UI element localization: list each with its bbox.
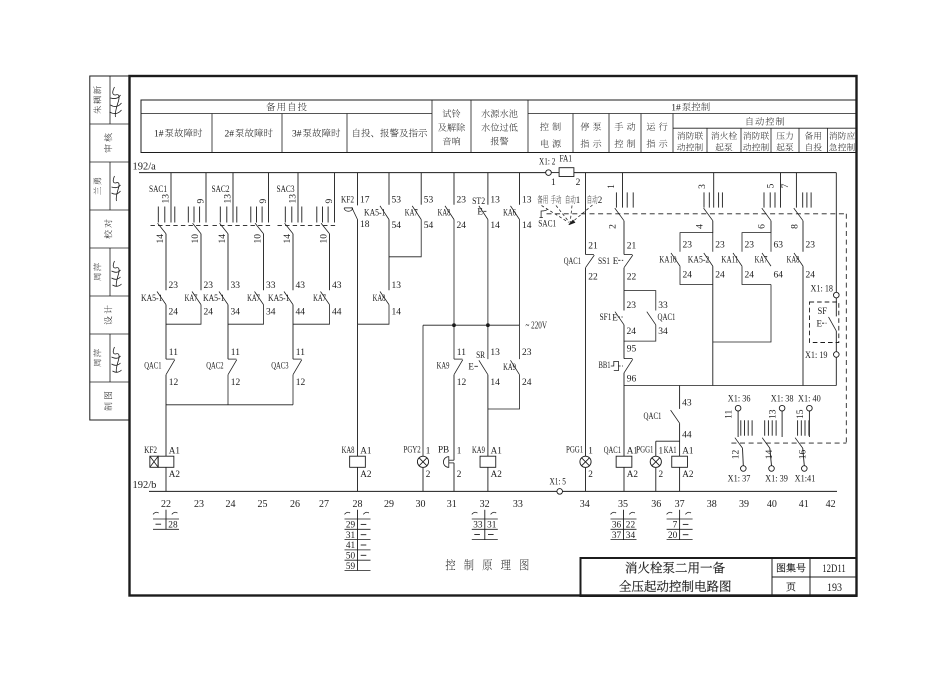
wire rejoin	[742, 266, 771, 284]
svg-text:28: 28	[353, 499, 363, 510]
svg-text:23: 23	[627, 301, 637, 311]
svg-text:34: 34	[626, 531, 636, 541]
svg-text:96: 96	[627, 375, 637, 385]
svg-text:34: 34	[658, 327, 668, 337]
svg-text:27: 27	[319, 499, 329, 510]
contact blade	[321, 292, 330, 305]
svg-text:X1: 39: X1: 39	[765, 475, 788, 485]
header table column line	[211, 114, 213, 153]
coil KA1	[672, 456, 688, 467]
lamp PGG1	[650, 456, 661, 467]
wire	[422, 325, 424, 456]
coil KF2	[158, 456, 174, 467]
svg-text:14: 14	[522, 221, 532, 231]
switch SAC1 contact blade	[794, 208, 803, 221]
wire merge	[624, 325, 656, 341]
svg-text:192/b: 192/b	[133, 480, 157, 491]
svg-text:2#: 2#	[225, 130, 235, 140]
wire	[742, 448, 745, 466]
svg-text:A2: A2	[682, 469, 694, 479]
svg-text:13: 13	[224, 194, 234, 204]
svg-text:20: 20	[668, 531, 678, 541]
wire reference table	[667, 518, 693, 520]
svg-text:KA8: KA8	[342, 445, 355, 455]
switch SAC3 contact position ticks	[316, 207, 318, 223]
svg-text:29: 29	[384, 499, 394, 510]
switch contact position ticks	[703, 192, 705, 207]
switch SAC1 contact blade	[615, 208, 624, 221]
switch SAC3 coupling dashed line	[278, 225, 338, 227]
wire reference stub	[484, 510, 486, 540]
header cell 备用自投	[805, 132, 821, 140]
svg-text:10: 10	[191, 234, 201, 244]
wire pair merge	[166, 305, 201, 325]
title strip name 朱耦新	[93, 86, 101, 114]
svg-text:KA5-1: KA5-1	[268, 294, 290, 304]
svg-text:12: 12	[296, 378, 306, 388]
wire	[679, 467, 681, 491]
contact blade	[293, 360, 302, 375]
svg-text:6: 6	[758, 224, 768, 229]
wire reference stub	[357, 510, 359, 571]
wire	[292, 305, 294, 360]
header table column line	[827, 128, 829, 152]
svg-text:24: 24	[627, 327, 637, 337]
wire rejoin	[680, 266, 713, 284]
title strip name cell divider	[109, 76, 111, 124]
svg-text:1: 1	[576, 195, 581, 205]
svg-text:SR: SR	[476, 351, 486, 361]
svg-text:33: 33	[473, 521, 483, 531]
contact blade	[166, 360, 175, 375]
header table column line	[640, 114, 642, 153]
svg-text:21: 21	[627, 241, 637, 251]
svg-text:14: 14	[490, 221, 500, 231]
svg-text:10: 10	[253, 234, 263, 244]
contact blade	[479, 360, 488, 374]
switch SAC1 contact position ticks	[187, 207, 189, 223]
svg-text:A1: A1	[682, 446, 694, 456]
svg-text:13: 13	[289, 194, 299, 204]
header table column line	[527, 100, 529, 153]
contact bar	[293, 358, 301, 360]
contact blade	[380, 206, 389, 220]
svg-text:1: 1	[426, 446, 431, 456]
svg-text:X1:41: X1:41	[795, 475, 816, 485]
wire bracket	[680, 233, 713, 252]
wire branch	[624, 291, 656, 311]
svg-text:2: 2	[588, 469, 593, 479]
wire right drop to X1:18	[835, 173, 837, 293]
svg-text:SAC1: SAC1	[149, 185, 167, 195]
svg-text:32: 32	[480, 499, 490, 510]
svg-text:2: 2	[457, 469, 462, 479]
terminal X1:41	[802, 466, 808, 472]
wire	[488, 375, 520, 409]
wire	[422, 468, 424, 492]
svg-text:23: 23	[715, 241, 725, 251]
svg-text:22: 22	[161, 499, 171, 510]
svg-text:7: 7	[781, 183, 791, 188]
svg-text:54: 54	[424, 221, 434, 231]
svg-text:SAC3: SAC3	[277, 185, 295, 195]
svg-text:A2: A2	[169, 469, 181, 479]
wire	[519, 220, 521, 326]
title strip role 制图	[104, 392, 112, 411]
title strip row line	[90, 295, 130, 297]
wire	[200, 234, 202, 290]
wire 54 merge	[389, 220, 421, 257]
svg-text:1#: 1#	[154, 130, 164, 140]
svg-text:28: 28	[168, 521, 178, 531]
switch SAC1 handle	[540, 209, 548, 217]
title strip row line	[90, 381, 130, 383]
svg-text:34: 34	[231, 308, 241, 318]
svg-text:13: 13	[490, 195, 500, 205]
svg-text:14: 14	[490, 378, 500, 388]
wire	[585, 468, 587, 492]
wire	[737, 411, 739, 437]
title strip name 周萍	[93, 349, 101, 367]
header table outline	[141, 100, 857, 153]
svg-text:22: 22	[627, 273, 637, 283]
contact bar	[624, 254, 632, 256]
contact blade	[671, 410, 680, 423]
wire	[585, 173, 587, 255]
svg-text:42: 42	[826, 499, 836, 510]
svg-text:QAC1: QAC1	[644, 412, 662, 422]
wire QAC link horizontal	[166, 404, 293, 406]
svg-text:14: 14	[218, 234, 228, 244]
wire	[623, 221, 625, 255]
svg-text:11: 11	[231, 348, 240, 358]
svg-text:KA11: KA11	[721, 256, 738, 266]
contact blade	[794, 253, 803, 266]
title text 消火栓泵二用一备	[626, 562, 725, 574]
contact bar	[586, 254, 594, 256]
svg-text:1: 1	[607, 184, 617, 189]
svg-text:QAC1: QAC1	[658, 313, 676, 323]
wire	[165, 375, 167, 457]
svg-text:A2: A2	[491, 469, 503, 479]
svg-text:43: 43	[332, 281, 342, 291]
svg-text:26: 26	[290, 499, 300, 510]
svg-text:54: 54	[392, 221, 402, 231]
wire	[770, 221, 772, 233]
wire	[329, 234, 331, 290]
svg-text:7: 7	[673, 521, 678, 531]
contact blade	[228, 360, 237, 375]
svg-text:63: 63	[774, 241, 784, 251]
svg-text:1: 1	[551, 178, 556, 188]
contact blade	[380, 292, 389, 305]
svg-text:13: 13	[769, 409, 779, 419]
switch SAC2 contact blade	[220, 223, 228, 234]
wire	[713, 285, 771, 343]
svg-text:E: E	[817, 319, 823, 329]
header table column line	[770, 128, 772, 152]
wire	[623, 373, 625, 456]
wire	[802, 221, 804, 252]
switch SAC2 coupling dashed line	[213, 225, 272, 227]
svg-text:X1: 37: X1: 37	[728, 475, 751, 485]
svg-text:FA1: FA1	[560, 155, 573, 165]
switch SAC1 contact blade	[795, 438, 803, 448]
header table row line 1	[141, 113, 432, 115]
title block outline	[581, 558, 857, 596]
svg-text:40: 40	[767, 499, 777, 510]
svg-text:ST2: ST2	[472, 197, 485, 207]
wire	[835, 357, 837, 385]
svg-text:30: 30	[416, 499, 426, 510]
svg-text:KA5-1: KA5-1	[203, 294, 225, 304]
svg-text:18: 18	[360, 220, 370, 230]
wire reference stub	[623, 510, 625, 540]
header table column line	[572, 114, 574, 153]
svg-text:14: 14	[156, 234, 166, 244]
svg-text:A1: A1	[360, 446, 372, 456]
title strip name cell divider	[109, 162, 111, 210]
svg-text:KA7: KA7	[405, 208, 418, 218]
svg-text:64: 64	[774, 271, 784, 281]
wire	[165, 305, 167, 360]
svg-text:PGG1: PGG1	[636, 445, 653, 455]
wire	[358, 305, 390, 325]
svg-text:QAC2: QAC2	[206, 362, 223, 372]
lamp PGY2	[417, 456, 428, 467]
wire	[357, 324, 359, 456]
wire	[263, 234, 265, 290]
svg-text:A2: A2	[627, 469, 639, 479]
contact bar	[166, 358, 174, 360]
svg-text:2: 2	[598, 195, 603, 205]
svg-text:23: 23	[806, 241, 816, 251]
header cell 消防联动控制	[677, 132, 703, 140]
svg-text:44: 44	[296, 308, 306, 318]
switch SAC1 coupling dashed line	[151, 225, 209, 227]
switch SAC2 contact position ticks	[250, 207, 252, 223]
svg-text:KA8: KA8	[373, 294, 386, 304]
signature scribble	[112, 261, 122, 286]
svg-text:24: 24	[522, 378, 532, 388]
svg-text:X1: 2: X1: 2	[539, 158, 556, 168]
svg-text:9: 9	[197, 199, 207, 204]
wire reference table	[611, 518, 637, 520]
switch SAC2 contact position ticks	[219, 207, 221, 223]
svg-text:23: 23	[457, 195, 467, 205]
svg-text:41: 41	[346, 541, 356, 551]
wire	[453, 220, 455, 326]
title block divider vertical 1	[771, 558, 773, 596]
svg-text:50: 50	[346, 552, 356, 562]
svg-text:KA8: KA8	[438, 208, 451, 218]
header table column line	[672, 114, 674, 153]
wire reference table	[472, 518, 498, 520]
header table row line 2 (auto-control)	[673, 127, 857, 129]
contact blade	[219, 292, 228, 305]
svg-text:33: 33	[658, 301, 668, 311]
wire	[802, 266, 804, 385]
caption 控制原理图	[446, 559, 529, 570]
switch contact position ticks	[764, 420, 766, 435]
svg-text:E: E	[477, 207, 483, 217]
svg-text:SS1: SS1	[598, 257, 610, 267]
wire	[388, 220, 390, 291]
svg-text:KA10: KA10	[659, 256, 676, 266]
position label 自动1	[566, 195, 576, 204]
svg-text:23: 23	[169, 281, 179, 291]
svg-text:33: 33	[231, 281, 241, 291]
svg-text:34: 34	[266, 308, 276, 318]
svg-text:24: 24	[806, 271, 816, 281]
svg-text:38: 38	[707, 499, 717, 510]
wire	[655, 468, 657, 492]
wire	[808, 411, 810, 437]
svg-text:24: 24	[226, 499, 236, 510]
svg-text:QAC1: QAC1	[604, 445, 621, 455]
wire top feeder	[574, 172, 836, 174]
svg-text:KA7: KA7	[185, 294, 198, 304]
wire	[227, 234, 229, 290]
wire	[519, 325, 521, 359]
svg-text:3#: 3#	[292, 130, 302, 140]
svg-text:SF1: SF1	[600, 313, 612, 323]
svg-text:3: 3	[698, 184, 708, 189]
svg-text:PGG1: PGG1	[566, 445, 583, 455]
switch SAC3 contact position ticks	[284, 207, 286, 223]
header table column line	[281, 114, 283, 153]
svg-text:12D11: 12D11	[822, 563, 846, 575]
svg-text:23: 23	[194, 499, 204, 510]
wire	[227, 305, 229, 360]
svg-text:12: 12	[169, 378, 179, 388]
svg-text:13: 13	[162, 194, 172, 204]
contact blade	[454, 360, 463, 375]
header cell 消防联动控制	[743, 132, 769, 140]
switch SAC1 contact 13-14 fixed wire	[170, 173, 172, 223]
svg-text:SAC1: SAC1	[538, 219, 556, 229]
svg-text:21: 21	[588, 241, 598, 251]
switch SAC1 contact blade	[735, 438, 743, 448]
wire	[453, 173, 455, 205]
header cell 压力起泵	[777, 132, 793, 140]
svg-text:24: 24	[683, 271, 693, 281]
svg-text:95: 95	[627, 345, 637, 355]
contact blade	[445, 206, 454, 220]
position label 备用	[538, 195, 548, 204]
switch SAC1 coupling dashed line	[547, 213, 847, 215]
wire	[453, 325, 455, 359]
header cell 控制电源	[540, 122, 561, 130]
wire pair merge	[293, 305, 330, 325]
svg-text:53: 53	[424, 195, 434, 205]
svg-text:23: 23	[683, 241, 693, 251]
svg-text:24: 24	[457, 221, 467, 231]
signature scribble	[112, 347, 122, 372]
svg-text:KA1: KA1	[664, 445, 677, 455]
title strip outline	[90, 76, 130, 420]
header table column line	[706, 128, 708, 152]
svg-text:14: 14	[392, 308, 402, 318]
button contact SF	[829, 317, 837, 331]
wire	[835, 331, 837, 352]
title strip row line	[90, 333, 130, 335]
switch SAC1 contact blade	[762, 438, 770, 448]
wire	[487, 220, 489, 326]
header table column line	[431, 100, 433, 153]
switch contact position ticks	[797, 420, 799, 435]
svg-text:33: 33	[266, 281, 276, 291]
switch SAC1 contact 3-4 fixed wire	[713, 173, 715, 208]
wire	[357, 467, 359, 491]
svg-text:2: 2	[426, 469, 431, 479]
svg-text:17: 17	[360, 195, 370, 205]
switch SAC1 contact blade	[158, 223, 166, 234]
svg-text:11: 11	[457, 348, 466, 358]
wire	[623, 467, 625, 491]
header cell 水源水池水位过低报警	[481, 109, 517, 117]
title strip row line	[90, 209, 130, 211]
contact blade	[255, 292, 264, 305]
switch contact position ticks	[763, 192, 765, 207]
switch SAC1 coupling dashed vertical	[845, 214, 847, 443]
svg-text:13: 13	[522, 195, 532, 205]
svg-text:X1: 19: X1: 19	[805, 351, 828, 361]
wire	[623, 291, 625, 311]
wire	[292, 234, 294, 290]
contact blade	[157, 292, 166, 305]
contact blade	[412, 206, 421, 220]
wire	[655, 441, 657, 456]
svg-text:34: 34	[580, 499, 590, 510]
svg-text:A2: A2	[360, 469, 372, 479]
contact blade	[704, 253, 713, 266]
wire	[487, 173, 489, 205]
svg-text:24: 24	[204, 308, 214, 318]
position label 自动2	[588, 195, 598, 204]
svg-text:37: 37	[675, 499, 685, 510]
svg-text:KA5-1: KA5-1	[364, 208, 386, 218]
svg-text:193: 193	[827, 582, 842, 594]
svg-text:KF2: KF2	[341, 195, 354, 205]
contact blade	[615, 312, 624, 325]
switch contact position ticks	[740, 420, 742, 435]
wire	[585, 268, 587, 457]
svg-text:43: 43	[682, 398, 692, 408]
wire reference stub	[679, 510, 681, 540]
terminal X1: 37	[741, 466, 747, 472]
svg-text:QAC1: QAC1	[564, 257, 581, 267]
svg-text:KA7: KA7	[313, 294, 326, 304]
switch SAC3 contact 9-10 fixed wire	[334, 173, 336, 223]
svg-text:35: 35	[618, 499, 628, 510]
svg-text:12: 12	[731, 450, 741, 460]
switch SAC1 contact 5-6 fixed wire	[780, 173, 782, 208]
wire	[487, 375, 489, 457]
contact blade	[284, 292, 293, 305]
svg-text:31: 31	[346, 531, 356, 541]
contact blade	[624, 255, 633, 268]
svg-text:KA5-2: KA5-2	[688, 256, 710, 266]
switch SAC2 contact 13-14 fixed wire	[232, 173, 234, 223]
svg-text:12: 12	[231, 378, 241, 388]
junction	[486, 323, 490, 327]
contact blade	[671, 253, 680, 266]
wire	[712, 221, 714, 233]
svg-text:22: 22	[588, 273, 598, 283]
svg-text:BB1: BB1	[599, 361, 611, 371]
wire bus 192/b	[149, 490, 837, 492]
